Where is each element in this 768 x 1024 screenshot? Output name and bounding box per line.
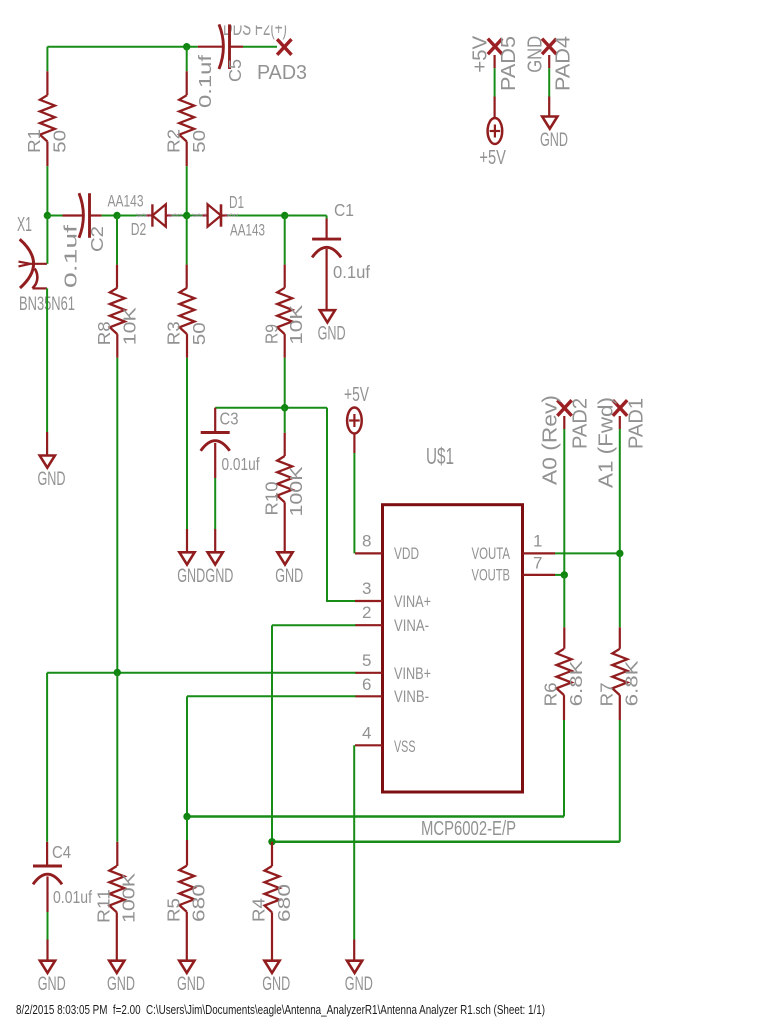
svg-text:2: 2: [362, 603, 371, 622]
svg-text:GND: GND: [177, 565, 205, 587]
svg-text:C4: C4: [52, 842, 71, 862]
wire R7 to feedback wire: [619, 720, 621, 842]
wire R3 to gnd: [186, 358, 188, 529]
svg-text:PAD1: PAD1: [624, 398, 647, 449]
wire node A down to X1 pin: [46, 216, 48, 264]
resistor R1: [46, 47, 48, 72]
wire R2 to node B: [186, 166, 188, 215]
svg-text:+5V: +5V: [479, 147, 506, 169]
wire pin 5 to C4: [47, 672, 355, 674]
svg-text:4: 4: [362, 724, 371, 743]
ground R5: [179, 961, 194, 973]
svg-text:C3: C3: [220, 409, 239, 429]
svg-text:R7: R7: [597, 682, 617, 706]
wire R9 to node D: [284, 358, 286, 408]
node R4 junction: [268, 838, 275, 845]
pad PAD1: [613, 400, 627, 416]
node VOUTA junction: [616, 550, 623, 557]
resistor R2: [186, 47, 188, 72]
svg-text:D2: D2: [131, 219, 147, 239]
resistor R9: [284, 216, 286, 265]
svg-text:GND: GND: [275, 565, 303, 587]
resistor R10: [284, 408, 286, 433]
svg-text:VOUTA: VOUTA: [472, 544, 511, 563]
svg-text:100K: 100K: [286, 466, 306, 516]
op-amp U$1 body: [383, 505, 523, 792]
svg-text:VDD: VDD: [394, 544, 419, 563]
capacitor C3: [214, 408, 216, 433]
capacitor C4: [46, 842, 48, 866]
svg-text:6: 6: [362, 675, 371, 694]
wire pin 2 to R4 node: [272, 624, 356, 626]
wire C5 to PAD3: [243, 46, 277, 48]
ground R11: [109, 961, 124, 973]
svg-text:R3: R3: [164, 321, 184, 345]
capacitor C2: [63, 214, 83, 216]
pin 6 stub: [355, 695, 383, 697]
ground C1: [320, 310, 335, 322]
wire C2 to node R8: [102, 215, 117, 217]
wire feedback A (R7/R4/pin2): [272, 841, 620, 844]
svg-text:50: 50: [50, 130, 70, 153]
node R8/R11 junction: [114, 669, 121, 676]
ground R10: [277, 552, 292, 564]
ground X1: [40, 456, 55, 468]
diode D2: [151, 204, 153, 226]
svg-text:10K: 10K: [119, 307, 139, 345]
wire D1 to node C: [221, 214, 227, 216]
svg-text:MCP6002-E/P: MCP6002-E/P: [421, 818, 516, 840]
pin 3 stub: [355, 600, 383, 602]
svg-text:VINB+: VINB+: [394, 664, 431, 683]
svg-text:X1: X1: [17, 213, 32, 236]
wire pin 4 to gnd: [353, 745, 355, 939]
resistor R11: [116, 842, 118, 866]
wire node A to C2: [47, 215, 62, 217]
svg-text:1puOut 2: 1puOut 2: [168, 213, 182, 218]
junction top R2: [183, 43, 190, 50]
ground pin 4: [347, 961, 362, 973]
wire node R8 to D2: [117, 215, 146, 217]
svg-text:0.01uf: 0.01uf: [222, 454, 260, 474]
svg-text:R11: R11: [94, 889, 114, 923]
svg-text:R5: R5: [164, 898, 184, 922]
svg-text:A0 (Rev): A0 (Rev): [538, 395, 561, 485]
pin 5 stub: [355, 672, 383, 674]
pad PAD4: [542, 39, 556, 55]
wire pin 6 to R5 node: [187, 695, 356, 697]
wire C3 to gnd: [214, 478, 216, 529]
svg-text:VINA+: VINA+: [394, 592, 431, 611]
wire top net: [47, 46, 197, 48]
svg-text:6.8K: 6.8K: [622, 660, 642, 706]
svg-text:PAD3: PAD3: [257, 61, 307, 84]
node C junction: [281, 212, 288, 219]
wire X1 shell to gnd: [46, 288, 48, 432]
wire R1 to node A: [46, 166, 48, 215]
node B junction: [183, 212, 190, 219]
pin 8 stub: [355, 552, 383, 554]
svg-text:0.1uf: 0.1uf: [333, 262, 370, 282]
node D junction: [281, 404, 288, 411]
wire pin 1 to PAD1 net: [555, 552, 620, 554]
wire VOUTB node to R6: [563, 575, 565, 627]
svg-text:R8: R8: [94, 321, 114, 345]
wire PAD5 down: [494, 55, 496, 68]
svg-text:VINB-: VINB-: [394, 687, 429, 706]
wire R8 node down to R11: [116, 673, 118, 842]
ground R4: [264, 961, 279, 973]
svg-text:PAD5: PAD5: [497, 36, 520, 91]
connector X1 hook: [33, 269, 38, 289]
wire PAD4 down: [548, 55, 550, 68]
svg-text:C2: C2: [87, 226, 107, 252]
svg-text:R2: R2: [163, 129, 183, 153]
svg-text:R4: R4: [249, 898, 269, 922]
wire +5V to pin 8: [353, 434, 355, 454]
pad PAD3: [277, 39, 291, 55]
svg-text:+5V: +5V: [469, 35, 492, 72]
svg-text:GND: GND: [345, 973, 373, 995]
wire VOUTA node to R7: [619, 553, 621, 627]
svg-text:GND: GND: [262, 973, 290, 995]
node VOUTB junction: [561, 571, 568, 578]
pin 1 stub: [523, 552, 556, 554]
svg-text:AA143: AA143: [108, 193, 144, 211]
svg-text:R6: R6: [541, 682, 561, 706]
svg-text:680: 680: [189, 884, 209, 922]
svg-text:R1: R1: [24, 129, 44, 153]
ground PAD4: [542, 117, 557, 129]
svg-text:0.1uf: 0.1uf: [61, 225, 81, 288]
svg-text:GND: GND: [38, 973, 66, 995]
pin 2 stub: [355, 624, 383, 626]
ground R3: [179, 552, 194, 564]
svg-text:1puOut 1: 1puOut 1: [136, 213, 151, 218]
resistor R6: [557, 649, 572, 695]
capacitor C1: [326, 219, 328, 240]
svg-text:680: 680: [274, 884, 294, 922]
svg-text:A1 (Fwd): A1 (Fwd): [594, 397, 617, 488]
svg-text:GND: GND: [177, 973, 205, 995]
connector X1 shell arc: [20, 239, 34, 288]
svg-text:GND: GND: [38, 468, 66, 490]
svg-text:GND: GND: [523, 36, 546, 73]
wire node B to D1: [187, 215, 203, 217]
node A junction: [44, 212, 51, 219]
wire PAD1 down: [619, 416, 621, 429]
svg-text:R10: R10: [261, 481, 281, 515]
svg-text:50: 50: [189, 130, 209, 153]
pad PAD2: [557, 400, 571, 416]
svg-text:5: 5: [362, 651, 371, 670]
svg-text:6.8K: 6.8K: [566, 660, 586, 706]
svg-text:VINA-: VINA-: [394, 616, 429, 635]
svg-text:AA143: AA143: [230, 222, 265, 240]
svg-text:VSS: VSS: [394, 737, 416, 756]
resistor R5: [186, 817, 188, 841]
svg-text:U$1: U$1: [426, 443, 454, 469]
wire node D horizontal: [215, 407, 327, 409]
wire PAD2 down: [563, 416, 565, 429]
svg-text:50: 50: [189, 322, 209, 345]
svg-text:GND: GND: [318, 323, 346, 345]
svg-text:PAD2: PAD2: [569, 398, 592, 449]
resistor R8: [116, 216, 118, 265]
svg-text:D1: D1: [229, 192, 244, 212]
svg-text:1puOut 3: 1puOut 3: [192, 213, 206, 218]
svg-text:100K: 100K: [119, 873, 139, 923]
wire node C to C1: [285, 215, 327, 217]
ground C3: [208, 552, 223, 564]
resistor R7: [612, 649, 627, 695]
svg-text:PAD4: PAD4: [552, 36, 575, 91]
wire pin 7 to PAD2 net: [555, 574, 564, 576]
pad PAD5: [488, 39, 502, 55]
resistor R4: [271, 842, 273, 866]
connector X1 shell lead: [33, 287, 47, 289]
svg-text:R9: R9: [261, 324, 281, 344]
wire R8 to pin5 net: [116, 358, 118, 673]
svg-text:C1: C1: [334, 200, 354, 220]
svg-text:0.01uf: 0.01uf: [53, 887, 92, 907]
svg-text:8/2/2015 8:03:05 PM f=2.00 C: 8/2/2015 8:03:05 PM f=2.00 C:\Users\Jim\…: [16, 1002, 545, 1017]
svg-text:GND: GND: [107, 973, 135, 995]
svg-text:10K: 10K: [286, 304, 306, 344]
pin 4 stub: [355, 744, 383, 746]
svg-text:VOUTB: VOUTB: [472, 566, 511, 585]
wire node D to pin 3: [326, 408, 328, 601]
svg-text:8: 8: [362, 532, 371, 551]
svg-text:7: 7: [533, 554, 542, 573]
supply +5V top right: [488, 118, 503, 144]
svg-text:3: 3: [362, 579, 371, 598]
connector X1 center pin: [19, 262, 31, 267]
svg-text:0.1uf: 0.1uf: [195, 55, 215, 108]
svg-text:1: 1: [533, 532, 542, 551]
capacitor C5: [198, 46, 223, 48]
wire D2 to node B: [166, 214, 172, 216]
node R8 junction: [113, 212, 120, 219]
resistor R3: [186, 216, 188, 265]
diode D1: [208, 204, 221, 226]
svg-text:+5V: +5V: [344, 384, 369, 406]
wire feedback B (R6/R5/pin6): [187, 815, 564, 818]
node R5 junction: [183, 813, 190, 820]
svg-text:1puOut 4: 1puOut 4: [225, 213, 238, 218]
ground C4: [40, 961, 55, 973]
svg-text:C5: C5: [225, 59, 245, 82]
svg-text:GND: GND: [540, 129, 568, 151]
supply +5V near IC: [347, 408, 362, 434]
svg-text:GND: GND: [205, 565, 233, 587]
pin 7 stub: [523, 574, 556, 576]
wire R6 to feedback wire: [563, 720, 565, 817]
wire C4 to gnd: [47, 912, 49, 940]
